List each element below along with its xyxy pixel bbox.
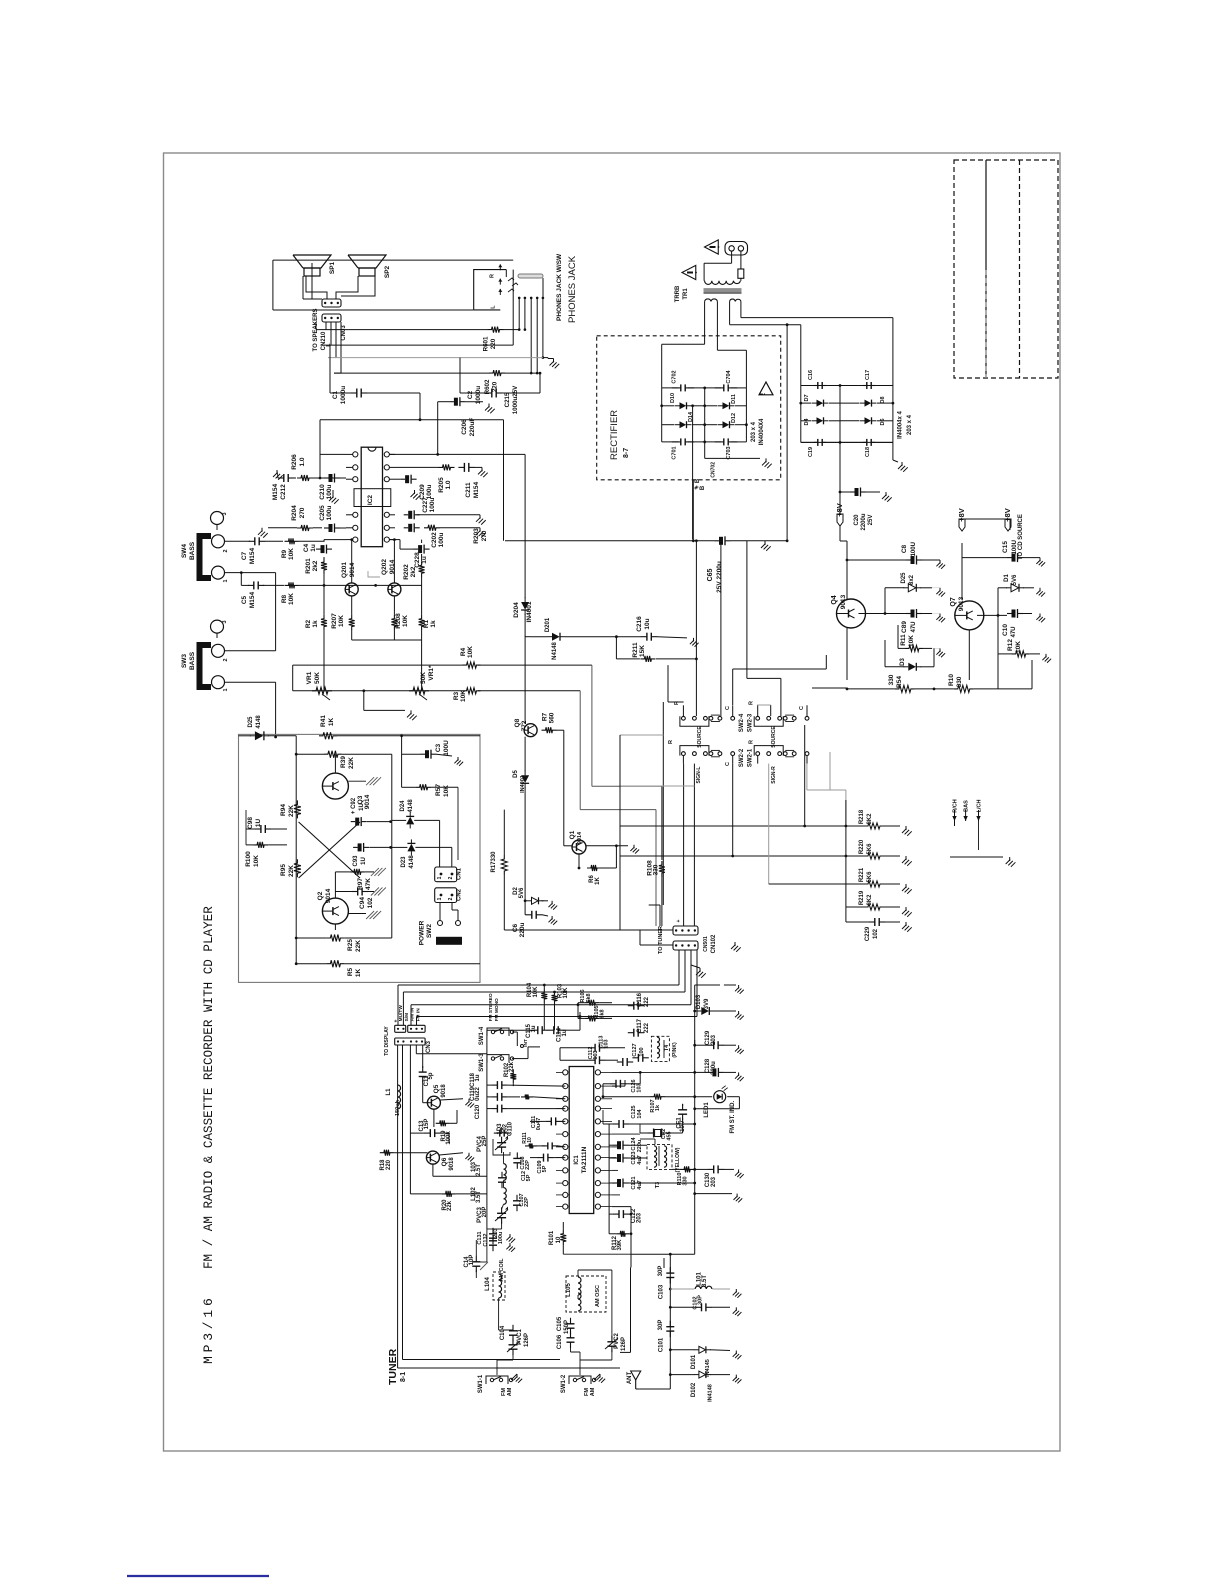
svg-text:L1: L1 [386,1088,392,1096]
svg-text:103: 103 [637,1083,643,1092]
svg-text:10K: 10K [563,987,569,999]
svg-text:100u: 100u [498,1232,504,1245]
svg-text:8K2: 8K2 [867,813,873,825]
svg-text:M154: M154 [272,483,279,500]
svg-text:VR1: VR1 [306,671,313,684]
svg-text:22K: 22K [288,865,295,877]
svg-text:D204: D204 [513,602,520,618]
svg-text:203 x 4: 203 x 4 [907,414,913,435]
svg-text:C94: C94 [359,897,366,909]
svg-text:M154: M154 [249,591,256,608]
svg-text:PHONES JACK W/SW: PHONES JACK W/SW [556,253,563,321]
svg-text:8K2: 8K2 [867,894,873,906]
svg-text:0u22: 0u22 [475,1087,481,1101]
svg-text:47U: 47U [911,621,917,632]
svg-text:D102: D102 [691,1382,697,1397]
svg-text:Q2: Q2 [317,891,324,900]
svg-text:R207: R207 [331,613,338,629]
svg-text:C702: C702 [671,370,677,383]
svg-text:AM: AM [590,1387,596,1396]
svg-text:+8V: +8V [957,508,966,522]
svg-text:3.5T: 3.5T [702,1275,708,1287]
svg-text:4u7: 4u7 [637,1180,643,1189]
svg-text:PVC1: PVC1 [517,1329,523,1345]
svg-text:R206: R206 [291,454,298,470]
svg-text:C8: C8 [901,544,908,553]
svg-text:R201: R201 [305,558,312,574]
svg-text:10K: 10K [338,615,345,627]
svg-text:R204: R204 [291,505,298,521]
svg-text:C106: C106 [557,1334,563,1349]
svg-text:1000u25V: 1000u25V [512,385,519,414]
svg-text:4148: 4148 [256,715,262,729]
svg-text:9014: 9014 [349,562,356,577]
svg-text:C65: C65 [707,568,714,581]
svg-text:Q6: Q6 [441,1157,448,1166]
svg-text:T4: T4 [664,1044,670,1051]
svg-text:TO DISPLAY: TO DISPLAY [384,1026,390,1056]
svg-text:C117: C117 [637,1018,643,1033]
svg-text:10K: 10K [460,690,467,702]
svg-text:SOURCE: SOURCE [771,726,777,748]
svg-text:Q4: Q4 [831,595,838,604]
svg-text:R39: R39 [340,756,347,768]
svg-text:+ C92: + C92 [351,797,357,814]
svg-text:15K: 15K [639,645,646,657]
svg-text:SIGN-L: SIGN-L [696,767,702,784]
svg-text:100U: 100U [443,740,450,756]
svg-text:1K: 1K [355,969,362,978]
svg-text:R95: R95 [280,864,287,876]
svg-text:R41: R41 [320,715,327,727]
svg-text:C3: C3 [435,743,442,752]
svg-text:IN4001: IN4001 [526,601,533,622]
svg-text:3: 3 [222,512,228,515]
svg-text:IN4004X4: IN4004X4 [759,418,765,445]
svg-text:N4148: N4148 [552,642,558,660]
svg-text:126P: 126P [524,1333,530,1347]
svg-text:5V6: 5V6 [519,887,525,898]
svg-text:C125: C125 [631,1105,637,1118]
svg-text:INT: INT [523,1039,529,1047]
svg-text:FM / AM RADIO & CASSETTE RECOR: FM / AM RADIO & CASSETTE RECORDER WITH C… [202,906,216,1269]
svg-text:D1: D1 [1004,574,1010,582]
svg-text:1: 1 [223,579,229,582]
svg-text:C704: C704 [726,369,732,383]
svg-text:R: R [749,740,755,744]
svg-text:SW2-4: SW2-4 [739,713,745,732]
svg-text:203 x 4: 203 x 4 [751,421,757,442]
svg-text:3.5T: 3.5T [476,1191,482,1203]
svg-text:Q8: Q8 [514,718,521,727]
svg-text:22P: 22P [525,1160,531,1170]
svg-text:10K: 10K [402,615,409,627]
svg-text:SOURCE: SOURCE [697,726,703,748]
svg-text:10: 10 [556,1236,562,1243]
svg-text:TA2111N: TA2111N [581,1146,588,1173]
svg-text:220uF: 220uF [469,418,476,437]
svg-text:10K: 10K [467,646,474,658]
svg-text:CN102: CN102 [711,934,717,953]
svg-text:20P: 20P [482,1207,488,1218]
svg-text:C: C [725,762,731,766]
svg-text:(YELLOW): (YELLOW) [675,1147,681,1172]
svg-text:D5: D5 [513,770,519,778]
svg-text:D10: D10 [670,393,676,403]
svg-text:R94: R94 [280,804,287,816]
svg-text:1: 1 [223,688,229,691]
svg-text:C: C [725,706,731,710]
svg-text:D24: D24 [400,800,406,812]
svg-text:9018: 9018 [449,1157,455,1171]
svg-text:D25: D25 [901,572,907,584]
svg-text:Q5: Q5 [433,1084,440,1093]
svg-text:2: 2 [448,876,454,879]
svg-text:C215: C215 [504,392,511,407]
svg-text:C110: C110 [508,1121,514,1136]
svg-text:C202: C202 [431,532,438,548]
svg-text:30P: 30P [658,1320,664,1331]
svg-text:5K6: 5K6 [867,843,873,855]
svg-text:1000u: 1000u [340,386,347,404]
svg-text:R202: R202 [403,564,410,580]
svg-text:R: R [490,274,496,278]
svg-text:SW2-2: SW2-2 [739,748,745,767]
svg-text:10K: 10K [253,855,260,867]
svg-text:330: 330 [888,674,895,685]
svg-text:C104: C104 [500,1325,506,1340]
svg-text:BAS: BAS [964,800,970,812]
svg-text:R602: R602 [484,379,491,394]
svg-text:0u47: 0u47 [536,1118,542,1131]
svg-text:4148: 4148 [409,855,415,869]
svg-text:R12: R12 [1007,639,1014,651]
svg-text:9014: 9014 [364,794,371,809]
svg-text:CN3: CN3 [426,1040,432,1053]
svg-text:47U: 47U [1011,626,1017,637]
svg-text:CN2: CN2 [457,888,463,901]
svg-text:270: 270 [299,507,306,518]
svg-text:1K: 1K [595,876,601,884]
svg-text:100u: 100u [326,485,333,500]
svg-text:203: 203 [711,1176,717,1187]
svg-text:FM MONO: FM MONO [494,998,500,1021]
svg-text:30P: 30P [658,1266,664,1277]
svg-text:150P: 150P [564,1320,570,1334]
svg-text:R219: R219 [859,890,865,905]
svg-text:POWER: POWER [419,920,426,945]
svg-text:TR1: TR1 [683,288,689,300]
svg-text:R11: R11 [900,634,907,646]
svg-text:1u: 1u [531,1025,537,1032]
svg-text:FM IN: FM IN [415,1008,421,1022]
svg-text:SIGN-R: SIGN-R [771,766,777,784]
svg-text:22k: 22k [447,1200,453,1211]
svg-text:6k8: 6k8 [600,1009,606,1018]
svg-text:Q1: Q1 [569,830,576,839]
svg-text:D101: D101 [691,1354,697,1369]
svg-text:2k2: 2k2 [312,560,319,571]
svg-text:C229: C229 [865,926,871,941]
svg-text:SW1-2: SW1-2 [561,1374,567,1393]
svg-text:22K: 22K [288,805,295,817]
svg-text:R8: R8 [281,594,288,603]
svg-text:M154: M154 [249,547,256,564]
svg-text:270: 270 [481,530,488,541]
svg-text:C1: C1 [332,390,339,399]
svg-text:10K: 10K [533,986,539,998]
svg-text:L/CH: L/CH [977,800,983,813]
svg-text:203: 203 [711,1034,717,1045]
svg-text:C103: C103 [659,1284,665,1299]
svg-text:C4: C4 [303,543,310,552]
svg-text:TRRB: TRRB [675,285,681,302]
svg-text:+: + [676,919,682,922]
svg-text:330: 330 [652,864,659,875]
svg-text:R57: R57 [435,784,442,796]
svg-text:1U: 1U [359,803,365,811]
svg-text:MU/TW: MU/TW [398,1005,404,1022]
svg-text:D23: D23 [401,856,407,868]
svg-text:3V9: 3V9 [704,998,710,1009]
svg-text:39K: 39K [617,1239,623,1251]
svg-text:C10: C10 [1002,624,1009,636]
svg-text:C227: C227 [422,497,429,513]
svg-text:R218: R218 [859,809,865,824]
svg-text:R54: R54 [896,676,903,688]
svg-text:Q3: Q3 [357,795,364,804]
svg-text:R211: R211 [632,642,639,658]
svg-text:30P: 30P [698,1295,704,1305]
svg-text:C212: C212 [280,484,287,500]
svg-text:C210: C210 [319,484,326,500]
svg-text:C19: C19 [808,447,814,457]
svg-text:FM STEREO: FM STEREO [488,993,494,1021]
svg-text:25V: 25V [868,515,874,526]
svg-text:5p: 5p [428,1072,434,1079]
svg-text:C132: C132 [483,1233,489,1246]
svg-text:C701: C701 [671,446,677,459]
svg-text:SW1-4: SW1-4 [479,1026,485,1045]
svg-text:100u: 100u [429,498,436,513]
svg-text:D6: D6 [880,418,886,425]
svg-text:C124: C124 [631,1136,637,1150]
svg-text:10u: 10u [644,618,651,629]
svg-text:D12: D12 [731,413,737,423]
svg-text:!: ! [758,393,767,396]
svg-text:1U: 1U [361,857,367,865]
svg-text:330: 330 [682,1176,688,1185]
svg-text:772: 772 [521,720,528,731]
svg-text:L104: L104 [485,1277,491,1291]
svg-text:R7: R7 [541,712,548,721]
svg-text:S/M: S/M [404,1013,410,1022]
svg-text:10P: 10P [469,1255,475,1266]
svg-text:150uh: 150uh [395,1099,401,1116]
svg-text:2: 2 [223,549,229,552]
svg-text:3: 3 [222,620,228,623]
svg-text:BASS: BASS [189,541,196,560]
svg-text:IN4004x 4: IN4004x 4 [898,411,904,439]
svg-text:D3: D3 [900,658,906,666]
svg-text:B: B [700,485,706,490]
svg-text:5P: 5P [526,1174,532,1181]
svg-text:1k: 1k [430,620,437,628]
svg-text:D11: D11 [731,394,737,404]
svg-text:IC2: IC2 [367,495,374,506]
svg-text:104: 104 [637,1108,643,1118]
svg-text:IC1: IC1 [574,1155,580,1165]
svg-text:CN501: CN501 [703,936,709,952]
svg-text:C120: C120 [475,1104,481,1119]
svg-text:C93: C93 [353,855,359,867]
svg-text:Q201: Q201 [341,562,348,578]
svg-text:R: R [749,701,755,705]
svg-text:C703: C703 [726,446,732,459]
svg-text:2k2: 2k2 [410,566,417,577]
svg-text:22K: 22K [348,757,355,769]
svg-text:50K: 50K [314,672,321,684]
svg-text:1K: 1K [328,718,335,727]
svg-text:560: 560 [548,712,555,723]
svg-text:6k8: 6k8 [586,993,592,1002]
svg-text:4u7: 4u7 [637,1155,643,1164]
svg-text:102: 102 [873,928,879,939]
svg-text:15P: 15P [424,1119,430,1130]
svg-text:C116: C116 [637,992,643,1007]
svg-text:100: 100 [639,1047,645,1056]
svg-text:2200u: 2200u [861,513,867,530]
svg-text:22k: 22k [509,1061,515,1072]
svg-text:2: 2 [448,897,454,900]
svg-text:SW2: SW2 [426,924,433,938]
svg-text:9014: 9014 [389,559,396,574]
svg-text:C211: C211 [465,482,472,498]
svg-text:M154: M154 [473,481,480,498]
svg-text:TO CD SOURCE: TO CD SOURCE [1018,514,1024,560]
svg-text:C5: C5 [241,595,248,604]
svg-text:C216: C216 [636,616,643,632]
svg-text:5V6: 5V6 [1012,574,1018,585]
svg-text:(PINK): (PINK) [672,1042,678,1058]
svg-text:C: C [799,706,805,710]
svg-text:IN4148: IN4148 [708,1384,714,1402]
svg-text:8-7: 8-7 [623,448,630,458]
svg-text:1u: 1u [475,1074,481,1081]
svg-text:L105: L105 [566,1283,572,1297]
svg-text:C20: C20 [854,514,860,526]
svg-text:D7: D7 [804,394,810,401]
svg-text:50K: 50K [420,672,427,684]
svg-text:SW2-1: SW2-1 [747,748,753,767]
svg-text:AM: AM [507,1387,513,1396]
svg-text:R203: R203 [473,528,480,544]
svg-text:C205: C205 [319,505,326,521]
svg-text:1: 1 [437,876,443,879]
svg-text:R9: R9 [281,549,288,558]
svg-text:5K6: 5K6 [867,871,873,883]
svg-text:8x2: 8x2 [909,574,915,585]
svg-text:1u: 1u [310,544,317,552]
svg-text:330: 330 [956,676,963,687]
svg-text:1: 1 [437,897,443,900]
svg-text:D25: D25 [248,716,254,728]
svg-text:220: 220 [492,381,499,392]
svg-text:SW4: SW4 [181,544,188,558]
svg-text:25P: 25P [482,1136,488,1147]
svg-text:C18: C18 [865,447,871,457]
svg-text:R/CH: R/CH [953,799,959,812]
svg-text:25V 2200u: 25V 2200u [716,561,723,593]
svg-text:D4: D4 [804,418,810,426]
svg-text:1U: 1U [255,819,262,828]
svg-text:22P: 22P [524,1197,530,1207]
svg-text:C2: C2 [467,390,474,399]
svg-text:47K: 47K [365,878,372,890]
svg-text:R100: R100 [245,851,252,867]
svg-text:100u: 100u [426,485,433,500]
svg-text:LED1: LED1 [704,1102,710,1118]
svg-text:102: 102 [367,897,374,908]
svg-text:ANT: ANT [627,1372,633,1385]
svg-text:100u: 100u [438,533,445,548]
svg-text:R1: R1 [423,619,430,628]
svg-text:R2: R2 [305,619,312,628]
svg-text:220u: 220u [711,1061,717,1075]
svg-text:+100U: +100U [911,542,917,560]
svg-text:AM OSC: AM OSC [595,1285,601,1307]
svg-text:4148: 4148 [408,799,414,813]
svg-text:9014: 9014 [325,888,332,903]
svg-text:R101: R101 [549,1230,555,1245]
svg-text:8-1: 8-1 [400,1372,407,1382]
svg-text:R: R [668,740,674,744]
svg-text:103: 103 [593,1050,599,1059]
svg-text:C127: C127 [632,1043,638,1056]
svg-text:D201: D201 [545,617,551,632]
svg-text:+: + [695,485,701,489]
svg-text:C206: C206 [461,419,468,435]
svg-text:+8V: +8V [1003,508,1012,522]
svg-text:1k: 1k [312,620,319,628]
svg-text:203: 203 [637,1212,643,1223]
svg-text:SW3: SW3 [181,654,188,668]
svg-text:RECTIFIER: RECTIFIER [609,410,620,460]
svg-text:5P: 5P [542,1165,548,1172]
svg-text:C15: C15 [1002,541,1009,553]
svg-text:R17330: R17330 [491,851,497,873]
svg-text:R220: R220 [859,839,865,854]
svg-text:10K: 10K [288,593,295,605]
svg-text:22K: 22K [355,940,362,952]
svg-text:2: 2 [223,658,229,661]
svg-text:220: 220 [490,338,497,349]
svg-text:222: 222 [644,996,650,1007]
svg-text:D103: D103 [696,994,702,1009]
svg-text:220: 220 [386,1159,392,1170]
svg-text:D8: D8 [880,396,886,403]
svg-text:CN1: CN1 [457,867,463,880]
svg-text:CN702: CN702 [711,462,717,478]
svg-text:+100U: +100U [1012,540,1018,558]
svg-text:R205: R205 [438,477,445,493]
svg-text:C7: C7 [241,551,248,560]
svg-text:VR1*: VR1* [428,665,435,681]
svg-text:10K: 10K [443,785,450,797]
svg-text:SP2: SP2 [384,265,391,278]
svg-text:R221: R221 [859,867,865,882]
svg-text:9014: 9014 [577,831,583,844]
